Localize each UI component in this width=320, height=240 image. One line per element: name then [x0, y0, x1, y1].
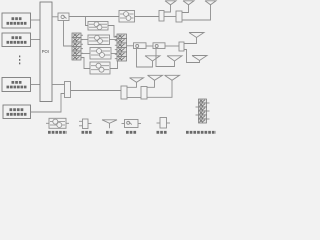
wire box1 to POI	[31, 19, 41, 21]
system box 4 text	[7, 110, 27, 115]
legend label 双向放大器	[48, 131, 67, 134]
wire C2 to splitter S3	[165, 45, 179, 47]
stack1 port to amplifier box D	[81, 53, 90, 55]
system box 4 (系统n+1 基站/直放站)	[3, 105, 31, 119]
S6 port to bottom antenna 2	[147, 80, 155, 87]
multiband splitter stack1	[72, 33, 83, 60]
stack1 port to amplifier box B	[81, 39, 88, 41]
legend label 天线	[106, 131, 114, 134]
legend power divider symbol (功分器)	[157, 122, 161, 124]
amplifier box B	[88, 35, 110, 45]
legend multiband combiner stack symbol (多频分路/合路器)	[199, 99, 207, 123]
wire box2 to POI	[31, 39, 41, 41]
splitter S1	[159, 11, 164, 22]
legend label 功分器	[157, 131, 168, 134]
stack2 output to distribution trunk	[127, 45, 134, 47]
wire box3 to POI	[31, 84, 41, 86]
S5 port to bottom antenna 1	[127, 82, 137, 87]
legend label 合路器	[82, 131, 93, 134]
C1 coupled drop to mid antenna 1	[137, 49, 153, 68]
wire box4 right then riser up to combiner S4	[31, 94, 65, 113]
tap down to amplifier box A	[86, 17, 89, 26]
coupler B_top	[58, 13, 69, 21]
S6 port to bottom antenna 3	[147, 80, 172, 97]
system box 3 text	[7, 82, 27, 87]
POI bar	[40, 2, 52, 102]
wire S1 to S2	[164, 16, 176, 18]
multiband combiner stack2	[115, 34, 127, 61]
system box 2 text	[7, 38, 27, 43]
splitter S5	[121, 86, 127, 99]
system box 1 (系统1 基站/直放站)	[2, 13, 31, 28]
legend label 多频分路/合路器	[186, 131, 216, 134]
roof antenna 3	[205, 1, 216, 5]
stack1 port jog to amplifier box E	[81, 58, 90, 69]
splitter S3	[179, 42, 184, 51]
svg-text:POI: POI	[42, 49, 49, 54]
wire box C to splitter S1	[135, 16, 160, 18]
bottom antenna 3	[165, 75, 180, 80]
bottom antenna 1	[130, 78, 144, 83]
legend amplifier symbol (双向放大器)	[46, 122, 49, 124]
box E output jog up into stack2	[110, 59, 118, 69]
legend label 耦合器	[126, 131, 137, 134]
amplifier box D	[90, 48, 111, 60]
wire POI to combiner S4 (lower branch)	[52, 84, 65, 86]
mid antenna 2	[167, 56, 182, 61]
wire S4 to splitter S5	[71, 90, 122, 92]
wire S5 to S6	[127, 97, 141, 99]
S1 port to roof antenna 1	[164, 5, 171, 12]
mid antenna 1	[145, 56, 160, 61]
upper-right antenna	[189, 33, 204, 38]
system box 2 (系统2 基站/直放站)	[2, 33, 31, 47]
legend antenna symbol (天线)	[102, 120, 117, 124]
S2 port to roof antenna 3	[182, 5, 211, 20]
C2 coupled drop to mid antenna 2	[156, 49, 175, 67]
mid antenna 3	[192, 56, 207, 61]
roof antenna 2	[183, 1, 194, 5]
coupled drop from B_top down to multiband splitter stack1	[64, 21, 73, 47]
amplifier box E	[90, 62, 110, 74]
S3 port to upper-right antenna	[184, 38, 197, 44]
S3 drop to mid antenna 3	[184, 50, 200, 63]
amplifier box C	[119, 11, 135, 23]
wire trunk to amplifier box C (upper riser branch)	[118, 16, 120, 18]
system box 1 text	[7, 19, 27, 24]
coupler C1 on trunk	[134, 43, 147, 49]
box D output to stack2	[111, 53, 117, 55]
system box 3 (系统n 基站/直放站)	[2, 78, 31, 92]
bottom antenna 2	[148, 75, 163, 80]
legend coupler symbol (耦合器)	[122, 123, 125, 125]
wire C1 to C2	[146, 45, 153, 47]
coupler C2 on trunk	[153, 43, 165, 49]
S2 port to roof antenna 2	[182, 5, 189, 13]
vertical ellipsis between system boxes	[19, 56, 20, 65]
box B output to stack2	[110, 39, 118, 41]
splitter S2	[176, 11, 182, 22]
combiner S4	[65, 82, 71, 98]
amplifier box A	[88, 22, 108, 31]
splitter S6	[141, 87, 147, 100]
main top trunk wire	[69, 16, 119, 18]
box A output jog down into stack2	[108, 26, 117, 38]
roof antenna 1	[165, 1, 176, 5]
wire POI to coupler B_top	[52, 16, 58, 18]
legend combiner symbol (合路器)	[79, 120, 83, 122]
